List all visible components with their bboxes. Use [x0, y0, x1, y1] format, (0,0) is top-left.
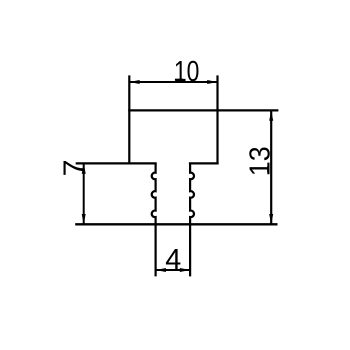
dimension 7: top arrowhead [82, 163, 86, 173]
dimension 7: dimension line [83, 163, 85, 224]
profile: head left edge with 10-dim extension above [128, 75, 130, 164]
dimension 7: bottom arrowhead [82, 214, 86, 224]
profile: stem left edge with barbs and 4-dim extension below [152, 163, 156, 276]
dimension 13: serif foot of digit 1 [267, 166, 269, 172]
svg-text:10: 10 [174, 56, 200, 88]
dimension 4: dimension line [156, 269, 191, 271]
svg-text:4: 4 [165, 244, 181, 276]
baseline (panel surface) [75, 223, 277, 225]
dimension 10: serif foot of digit 1 [175, 79, 183, 81]
dimension 13: bottom arrowhead [269, 214, 273, 224]
dimension 4: right arrowhead [180, 268, 190, 272]
dimension 10: right arrowhead [207, 80, 217, 84]
profile: head top edge with 13-dim extension [128, 109, 278, 111]
dimension 13: dimension line [270, 110, 272, 224]
profile: stem right edge with barbs and 4-dim extension below [190, 163, 194, 276]
profile: left shoulder line with 7-dim extension [76, 162, 157, 164]
profile: head right edge with 10-dim extension above [216, 75, 218, 164]
dimension 10: dimension line [129, 81, 217, 83]
svg-text:13: 13 [244, 146, 276, 176]
profile: right shoulder line [189, 162, 219, 164]
dimension 4: left arrowhead [156, 268, 166, 272]
dimension 10: left arrowhead [129, 80, 139, 84]
svg-text:7: 7 [58, 160, 90, 177]
dimension 13: top arrowhead [269, 110, 273, 120]
